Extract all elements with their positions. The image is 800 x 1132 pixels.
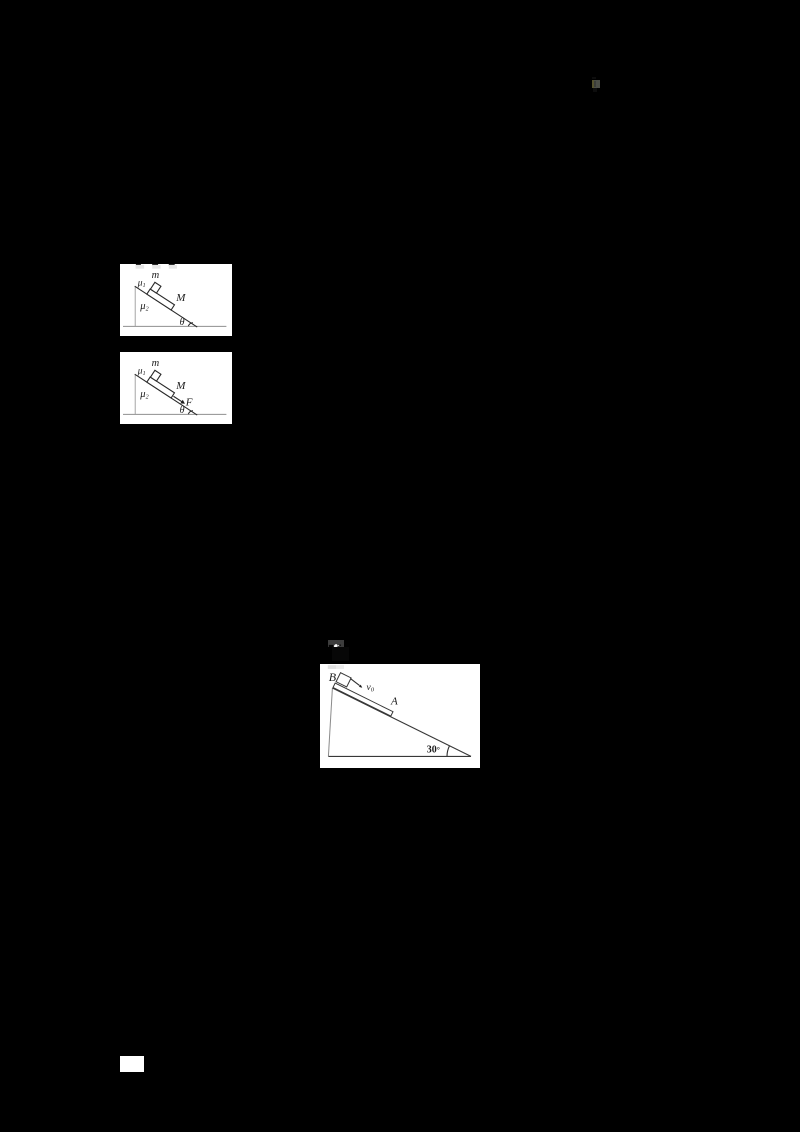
cut-off character tick 3 <box>169 264 175 266</box>
wedge base <box>328 755 471 757</box>
svg-text:B: B <box>329 670 337 684</box>
vertical back wall line <box>134 287 136 327</box>
grey character remnant 2 <box>152 265 160 269</box>
velocity arrow v0 <box>350 678 359 685</box>
grey remnant left <box>328 665 336 669</box>
svg-text:30°: 30° <box>427 744 440 755</box>
angle arc theta <box>188 411 193 415</box>
cut-off character tick 2 <box>152 264 158 266</box>
caption fragment above figure 3 <box>332 647 349 661</box>
svg-text:m: m <box>152 358 160 369</box>
small thumbnail icon top right <box>592 77 596 80</box>
small white rectangle bottom left <box>120 1056 144 1072</box>
blocks M and m and force arrow F <box>147 370 191 406</box>
incline surface <box>135 374 198 415</box>
blocks M and m on incline <box>147 282 179 310</box>
incline surface <box>135 286 198 327</box>
grey remnant right <box>336 665 344 669</box>
plank A and block B <box>333 673 398 716</box>
svg-text:A: A <box>390 695 398 707</box>
vertical back wall line <box>134 375 136 415</box>
grey character remnant 1 <box>136 265 145 269</box>
ground line <box>123 325 226 327</box>
wedge hypotenuse <box>332 688 471 756</box>
figure 3: wedge 30 deg with plank A and block B, velocity v0 <box>320 664 480 768</box>
svg-text:θ: θ <box>180 405 185 416</box>
angle arc theta <box>188 323 193 327</box>
svg-text:M: M <box>175 292 186 304</box>
figure 1: incline with blocks m on M, coefficients mu1 mu2 <box>120 264 232 336</box>
svg-text:m: m <box>152 270 160 281</box>
grey character remnant 3 <box>169 265 177 269</box>
svg-text:F: F <box>185 396 193 408</box>
cut-off character tick 1 <box>136 264 141 266</box>
svg-text:M: M <box>175 380 186 392</box>
svg-text:θ: θ <box>180 317 185 328</box>
angle arc 30 <box>447 746 450 757</box>
figure 2: same incline with applied force F <box>120 352 232 424</box>
wedge left side <box>328 688 332 756</box>
ground line <box>123 413 226 415</box>
